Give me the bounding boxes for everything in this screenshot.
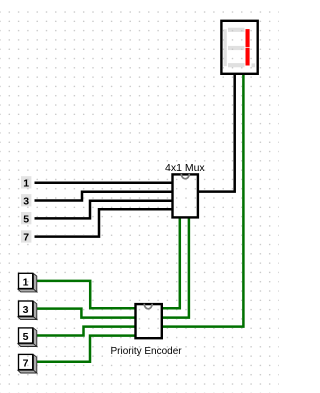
priority encoder U2: [111, 304, 183, 357]
input pin label 7: [21, 230, 31, 243]
segment B top-right (on): [246, 29, 250, 47]
wire: input 7 to mux pin 4: [35, 209, 173, 236]
segment D bottom (off): [228, 63, 245, 67]
segment F top-left (off): [224, 29, 227, 48]
wire: button 7 to encoder pin 4: [37, 336, 136, 362]
button input 7: [18, 354, 37, 373]
segment A top (off): [228, 28, 245, 32]
button input 3: [18, 301, 37, 320]
wire: input 5 to mux pin 3: [35, 201, 173, 219]
wire: encoder out 1 to mux select A: [162, 218, 180, 309]
segment C bottom-right (on): [246, 48, 250, 66]
wire: mux output to display black pin: [198, 74, 235, 192]
mux U1 4x1 Mux: [165, 162, 205, 218]
wire: encoder out 2 to mux select B: [162, 218, 189, 318]
segment E bottom-left (off): [224, 48, 227, 66]
input pin label 1: [21, 176, 31, 189]
input pin label 3: [21, 194, 31, 207]
wire: button 3 to encoder pin 2: [37, 309, 136, 318]
decimal point (off): [252, 63, 256, 67]
wire: button 1 to encoder pin 1: [37, 281, 136, 308]
wire: button 5 to encoder pin 3: [37, 327, 136, 336]
wire: input 1 to mux pin 1: [35, 181, 173, 184]
button input 1: [18, 273, 37, 292]
wire: encoder out 3 to display green pin: [162, 74, 243, 327]
button input 5: [18, 328, 37, 347]
wire: input 3 to mux pin 2: [35, 192, 173, 201]
segment G middle (off): [228, 46, 245, 50]
input pin label 5: [21, 212, 31, 225]
seven segment display: [221, 21, 257, 74]
